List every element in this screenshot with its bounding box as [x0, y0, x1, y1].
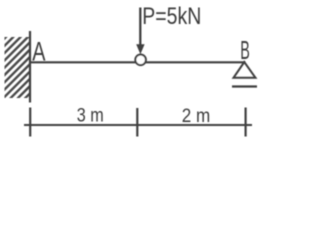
svg-text:3 m: 3 m — [77, 105, 104, 126]
svg-text:A: A — [32, 36, 46, 67]
dimension tick at A — [29, 108, 31, 137]
svg-text:2 m: 2 m — [182, 105, 211, 127]
dimension tick at B — [245, 108, 247, 137]
svg-text:B: B — [240, 37, 250, 65]
load arrowhead — [136, 44, 144, 54]
wall face vertical line — [29, 31, 31, 103]
beam AB — [30, 61, 246, 63]
ground line under roller — [232, 85, 257, 87]
dimension tick at load — [136, 108, 138, 137]
dimension line — [24, 124, 252, 126]
hinge circle on beam — [135, 55, 146, 66]
wall hatching (fixed support at A) — [0, 30, 93, 105]
roller support triangle at B — [234, 62, 256, 78]
svg-text:P=5kN: P=5kN — [142, 4, 201, 30]
load arrow P line — [139, 8, 141, 47]
